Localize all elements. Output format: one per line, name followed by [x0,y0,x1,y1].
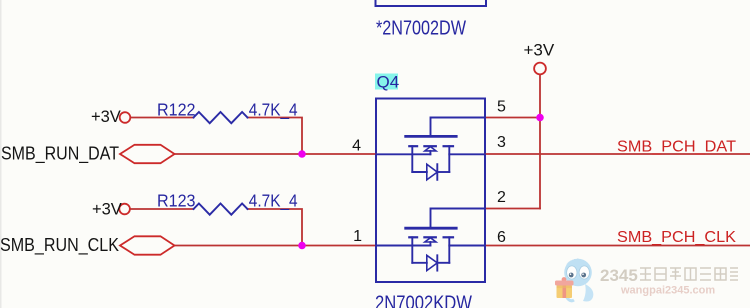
svg-text:R123: R123 [157,191,196,211]
svg-text:1: 1 [353,228,362,245]
svg-text:SMB_RUN_CLK: SMB_RUN_CLK [0,234,120,256]
svg-text:4: 4 [352,138,361,155]
svg-text:6: 6 [497,229,506,246]
svg-text:5: 5 [497,99,506,116]
svg-text:4.7K_4: 4.7K_4 [249,100,298,121]
svg-text:2345: 2345 [600,266,638,285]
svg-text:2: 2 [497,189,506,206]
svg-text:SMB_PCH_CLK: SMB_PCH_CLK [617,229,737,246]
svg-text:Q4: Q4 [377,73,400,92]
svg-text:4.7K_4: 4.7K_4 [249,191,298,212]
svg-text:wangpai2345.com: wangpai2345.com [620,285,715,297]
svg-text:3: 3 [497,134,506,151]
svg-text:2N7002KDW: 2N7002KDW [375,293,472,308]
svg-text:R122: R122 [157,100,196,120]
svg-text:*2N7002DW: *2N7002DW [376,18,466,40]
svg-text:+3V: +3V [524,41,555,60]
svg-text:+3V: +3V [92,201,122,219]
svg-text:SMB_PCH_DAT: SMB_PCH_DAT [617,139,737,156]
svg-text:+3V: +3V [91,108,121,126]
svg-text:SMB_RUN_DAT: SMB_RUN_DAT [1,143,119,165]
